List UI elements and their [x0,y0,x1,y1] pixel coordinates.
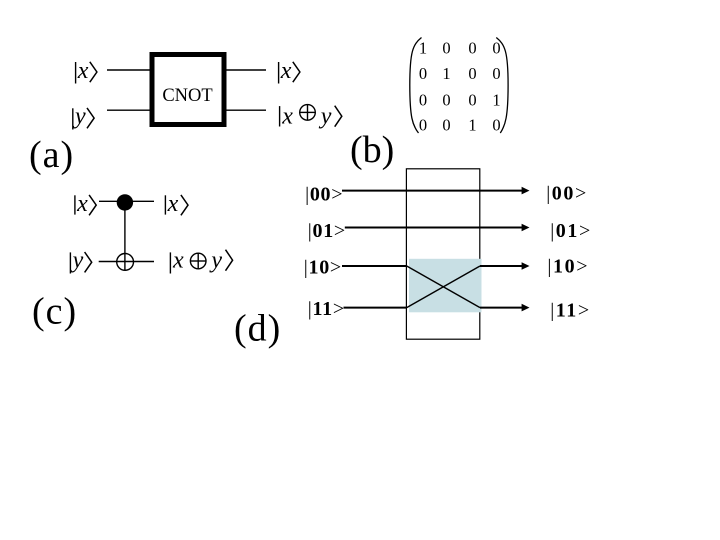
svg-text:0: 0 [419,116,427,135]
ket |y> input of CNOT box (a) [73,104,94,130]
svg-text:CNOT: CNOT [162,86,212,106]
svg-text:|11>: |11> [550,300,591,322]
wire output x from CNOT box [224,69,266,71]
wire diagonal 11-to-10 (d) [407,266,480,308]
svg-text:|10>: |10> [304,257,342,279]
wire arrow out to |10> right [480,262,530,270]
matrix row 4: 0 0 1 0 [419,116,501,135]
swap highlight shaded box (d) [409,259,482,313]
ket |x> output of CNOT box (a) [279,58,300,84]
svg-text:x: x [280,58,292,84]
ket |x> output of circuit (c) [165,191,188,217]
svg-text:0: 0 [442,116,450,135]
svg-text:|10>: |10> [547,256,589,278]
svg-text:1: 1 [419,38,427,57]
svg-text:|01>: |01> [308,220,346,242]
svg-text:1: 1 [442,64,450,83]
wire output x+y from CNOT box [224,109,266,111]
ket |x> input of CNOT box (a) [76,58,97,84]
matrix row 1: 1 0 0 0 [419,38,501,57]
svg-text:x: x [167,191,179,217]
wire |10> into box [342,265,407,267]
svg-text:|11>: |11> [308,298,345,320]
wire input y to CNOT box [107,109,152,111]
svg-text:0: 0 [492,116,500,135]
wire diagonal 10-to-11 (d) [407,266,480,308]
ket |x xor y> output of CNOT box (a) [280,104,342,130]
wire |11> into box [344,307,407,309]
svg-text:x: x [77,58,89,84]
svg-text:0: 0 [442,91,450,110]
wire target line (c) [99,261,154,263]
svg-text:|00>: |00> [546,183,588,205]
svg-text:x: x [76,191,88,217]
svg-text:0: 0 [419,91,427,110]
matrix left parenthesis [410,38,422,134]
svg-text:0: 0 [468,38,476,57]
svg-text:(b): (b) [350,129,394,171]
svg-text:(d): (d) [234,307,281,349]
ket |y> input of circuit (c) [70,248,91,274]
matrix row 2: 0 1 0 0 [419,64,501,83]
svg-text:0: 0 [492,64,500,83]
CNOT box U1 [152,55,224,125]
XOR target circle (c) [117,254,134,271]
permutation box rectangle (d) [406,169,479,339]
svg-text:x: x [172,248,184,274]
matrix right parenthesis [496,38,508,134]
svg-text:x: x [281,104,293,130]
wire arrow |00> to |00> [342,187,530,195]
svg-text:|01>: |01> [550,220,592,242]
svg-text:0: 0 [468,64,476,83]
wire control line (c) [99,200,154,202]
ket |x xor y> output of circuit (c) [170,248,232,274]
wire vertical control-target link (c) [124,202,126,270]
svg-text:0: 0 [468,91,476,110]
svg-text:y: y [319,104,332,130]
svg-text:0: 0 [419,64,427,83]
svg-text:y: y [73,104,86,130]
svg-text:0: 0 [442,38,450,57]
svg-text:|00>: |00> [305,184,343,206]
svg-text:(c): (c) [32,290,77,332]
ket |x> input of circuit (c) [75,191,96,217]
svg-text:1: 1 [492,91,500,110]
wire input x to CNOT box [107,69,152,71]
control dot (c) [117,194,133,210]
svg-text:0: 0 [492,38,500,57]
svg-text:y: y [209,248,222,274]
matrix row 3: 0 0 0 1 [419,91,501,110]
svg-text:(a): (a) [29,134,74,176]
svg-text:1: 1 [468,116,476,135]
wire arrow out to |11> right [480,304,530,312]
wire arrow |01> to |01> [345,224,530,232]
svg-text:y: y [71,248,84,274]
